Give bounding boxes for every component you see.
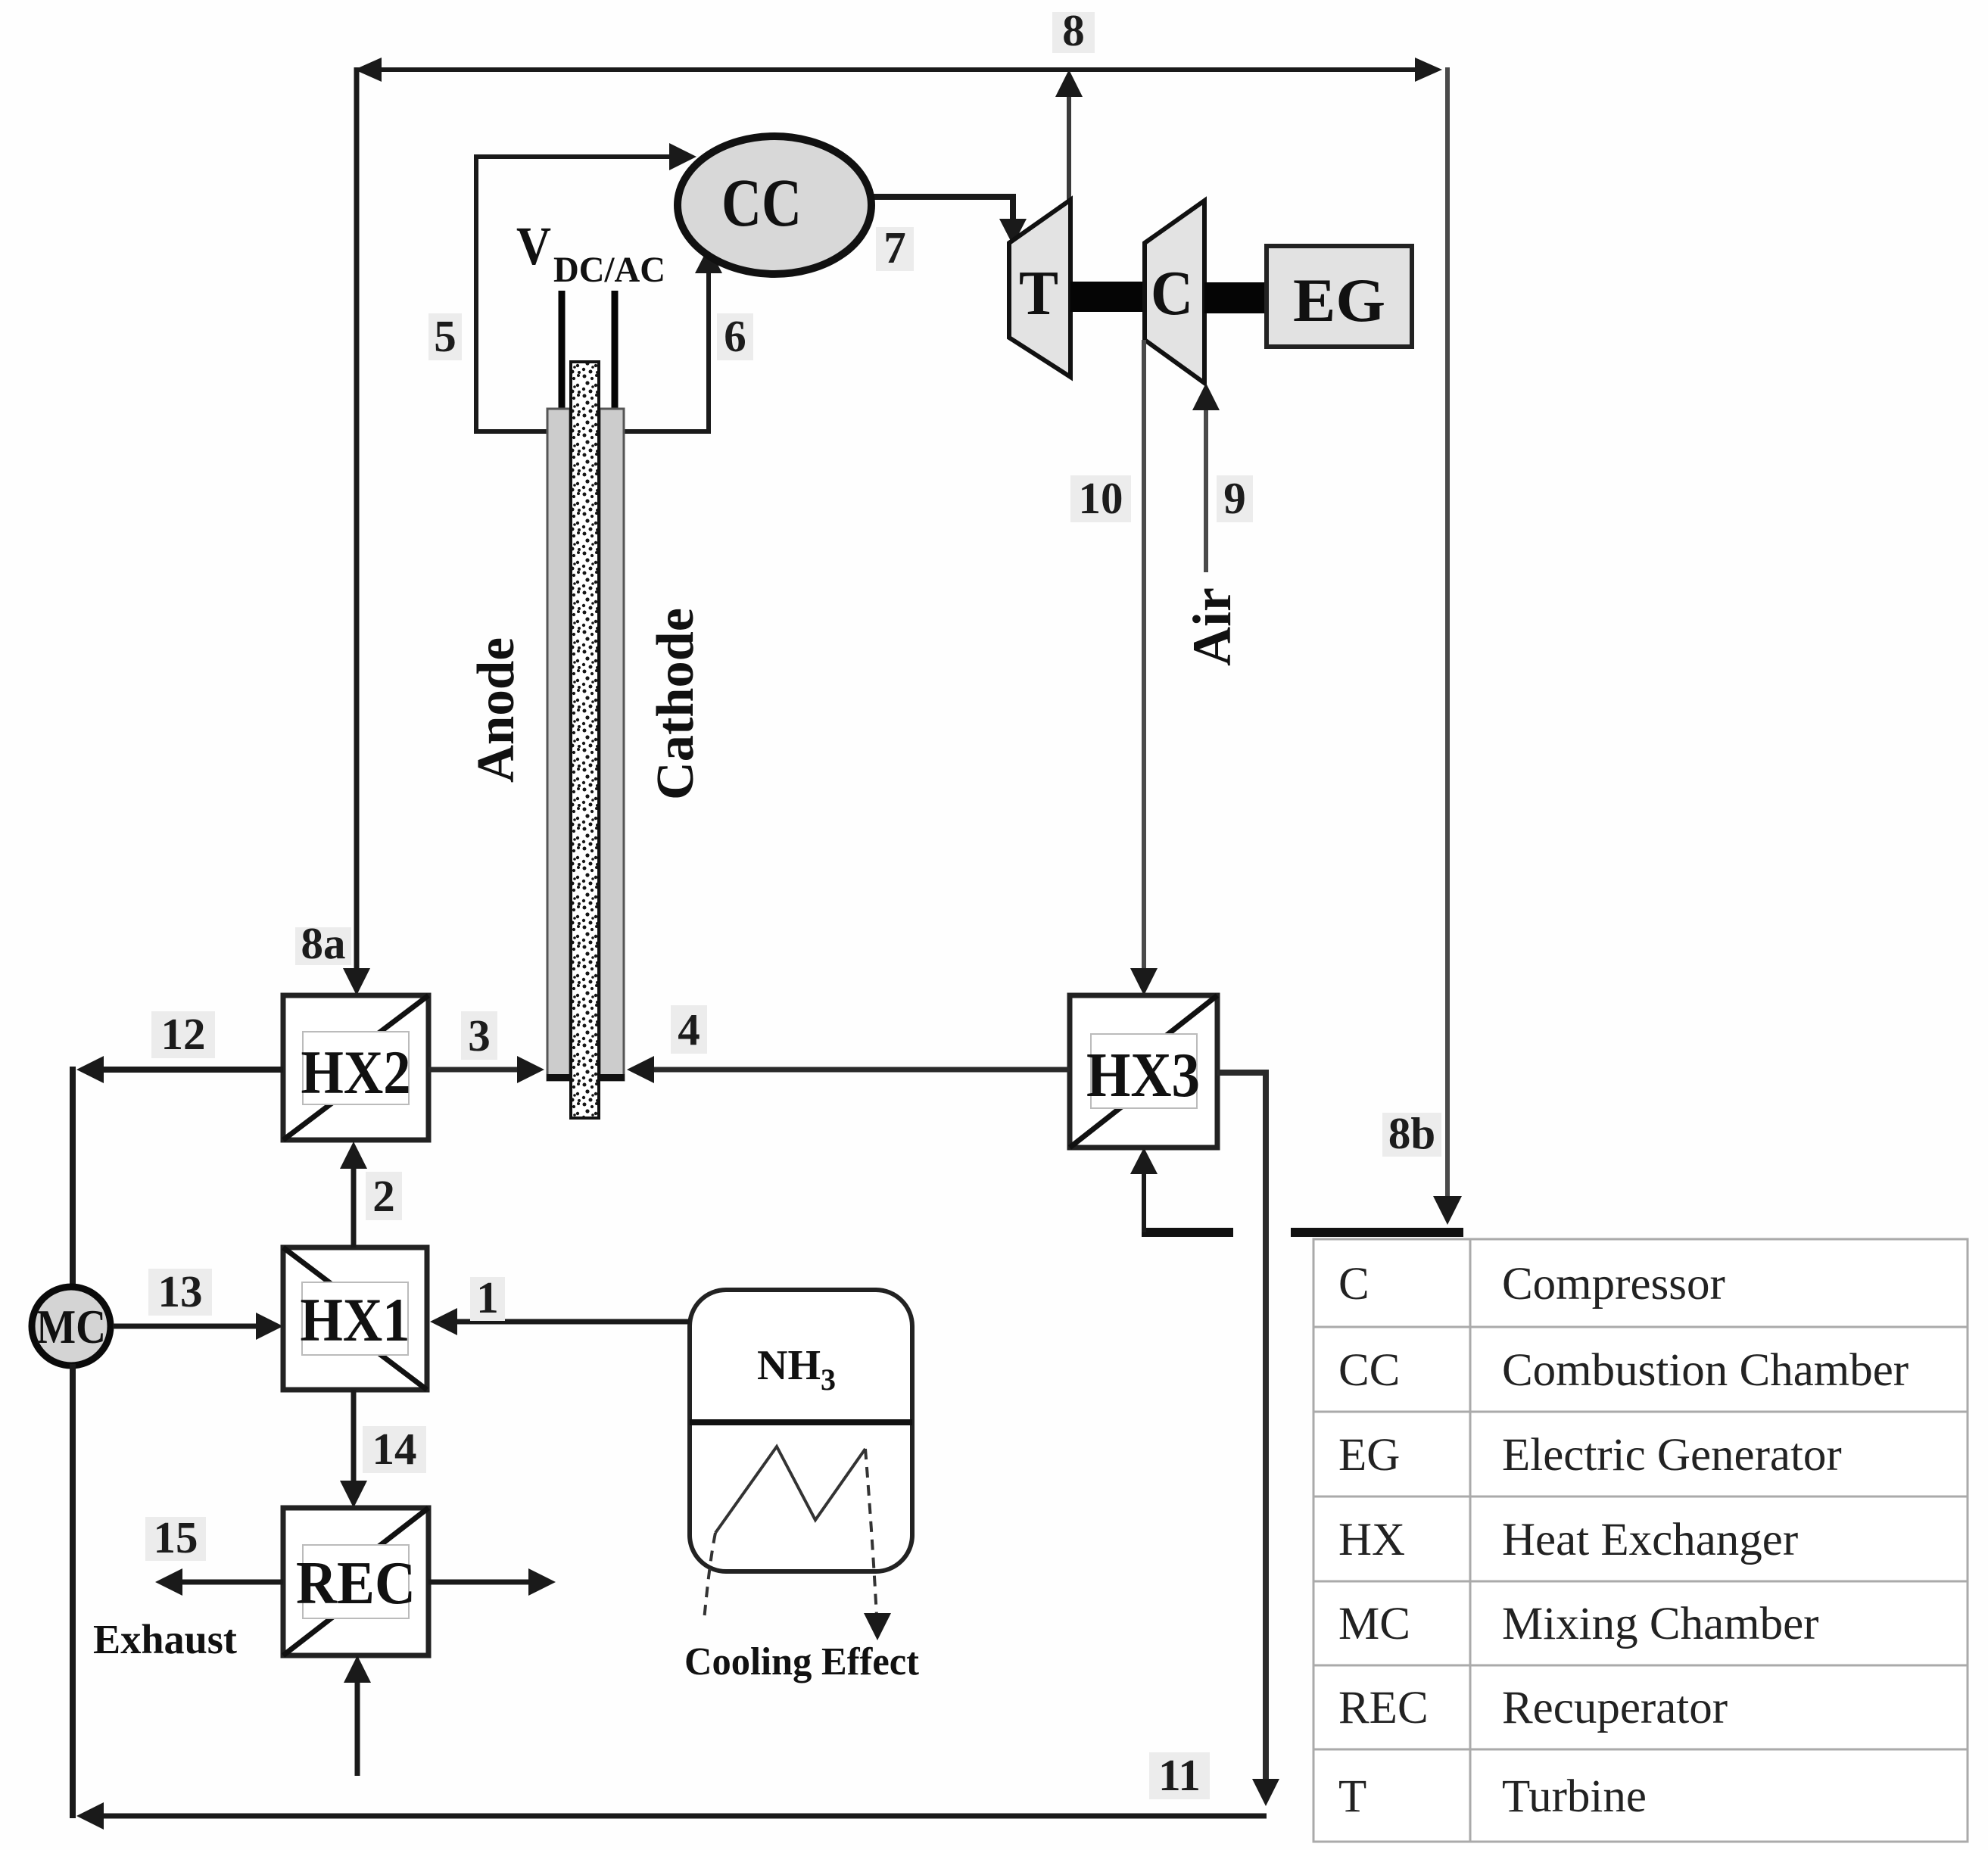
legend row MC [1338,1599,1818,1649]
legend row T [1338,1771,1647,1822]
svg-text:4: 4 [678,1004,700,1054]
svg-text:REC: REC [296,1550,416,1617]
wire 8b horizontal right segment [1291,1228,1463,1237]
ammonia tank NH3 [690,1290,912,1571]
wire 8b horizontal left segment [1142,1228,1233,1237]
label 14 [363,1424,426,1474]
svg-text:DC/AC: DC/AC [553,250,665,290]
wire stream 8a left vertical [343,67,370,995]
legend table [1313,1239,1968,1842]
wire stream 11 (HX3 to MC loop) [76,1073,1279,1830]
svg-text:Recuperator: Recuperator [1502,1683,1728,1733]
svg-text:1: 1 [476,1272,499,1322]
wire stream 6 (up into CC) [695,247,722,434]
legend row CC [1338,1345,1909,1396]
svg-text:Compressor: Compressor [1502,1259,1725,1310]
shaft turbine-compressor [1070,282,1145,312]
wire turbine exhaust up to stream 8 [1055,70,1083,200]
svg-text:Cooling Effect: Cooling Effect [684,1640,920,1683]
wire stream 9 air inlet [1192,383,1220,572]
label 8b [1382,1108,1441,1158]
svg-text:T: T [1019,258,1058,329]
svg-text:Electric Generator: Electric Generator [1502,1430,1842,1481]
wire stream 13 (MC to HX1) [113,1313,283,1340]
svg-text:Anode: Anode [467,637,525,783]
label 8a [295,918,351,968]
svg-text:8: 8 [1062,5,1085,55]
heat exchanger HX2 [283,995,428,1140]
wire stream 8 top [354,58,1442,82]
svg-text:HX1: HX1 [301,1285,410,1354]
label 4 [671,1004,707,1054]
turbine T [1009,200,1070,377]
shaft compressor-generator [1204,282,1267,313]
wire MC down leg [70,1364,76,1818]
svg-text:C: C [1338,1259,1369,1310]
svg-text:13: 13 [158,1266,203,1316]
svg-text:6: 6 [724,311,746,361]
fuel cell cathode bar [599,409,625,1081]
svg-text:T: T [1338,1771,1366,1822]
label 12 [151,1009,215,1059]
wire REC right outlet [428,1568,556,1596]
svg-text:11: 11 [1158,1750,1201,1800]
label 10 [1070,473,1131,523]
svg-text:8a: 8a [301,918,346,968]
wire stream 2 (HX1 to HX2) [340,1141,367,1247]
wire stream 12 (HX2 to MC) [76,1056,283,1083]
label 5 [428,311,462,361]
label 15 [145,1512,206,1562]
legend row C [1338,1259,1725,1310]
svg-text:7: 7 [883,223,906,273]
svg-text:5: 5 [434,311,456,361]
wire riser into HX3 bottom [1130,1148,1158,1232]
svg-text:Turbine: Turbine [1502,1771,1647,1822]
svg-text:15: 15 [154,1512,198,1562]
svg-text:HX3: HX3 [1086,1040,1200,1110]
label 11 [1149,1750,1210,1800]
label 9 [1217,473,1253,523]
svg-text:Heat Exchanger: Heat Exchanger [1502,1515,1798,1565]
wire stream 8b right vertical [1433,67,1462,1225]
wire stream 1 (NH3 to HX1) [430,1308,690,1335]
label 13 [148,1266,212,1316]
svg-text:2: 2 [372,1171,395,1221]
wire stream 7 (CC to turbine) [869,197,1027,245]
label 3 [461,1011,497,1060]
wire stream 15 (REC exhaust) [155,1568,283,1596]
combustion chamber CC [678,136,871,274]
svg-text:C: C [1151,258,1193,329]
electric generator EG [1267,246,1412,347]
compressor C [1145,201,1204,383]
label 2 [366,1171,402,1221]
recuperator REC [283,1508,428,1655]
svg-text:MC: MC [1338,1599,1410,1649]
legend row REC [1338,1683,1728,1733]
svg-text:REC: REC [1338,1683,1429,1733]
svg-text:Combustion Chamber: Combustion Chamber [1502,1345,1909,1396]
wire anode lead [559,291,566,424]
wire stream 5 loop (left+top into CC) [476,143,696,431]
mixing chamber MC [32,1287,111,1366]
svg-text:EG: EG [1293,266,1385,335]
svg-text:9: 9 [1223,473,1246,523]
wire stream 10 (compressor to HX3) [1130,340,1158,995]
evaporator coil zigzag [704,1447,891,1640]
svg-text:Air: Air [1182,587,1242,666]
wire stream 4 (HX3 to cathode) [627,1056,1070,1083]
label 1 [470,1272,505,1322]
svg-text:3: 3 [468,1011,491,1060]
wire REC bottom feed [344,1655,371,1776]
wire stream 14 (HX1 to REC) [340,1390,367,1508]
heat exchanger HX3 [1070,995,1217,1148]
svg-text:MC: MC [36,1300,106,1353]
heat exchanger HX1 [283,1247,427,1390]
wire MC riser [70,1067,76,1288]
svg-text:CC: CC [721,166,802,241]
svg-text:V: V [516,216,551,276]
svg-text:Cathode: Cathode [647,608,705,800]
svg-text:HX2: HX2 [301,1038,411,1107]
svg-text:12: 12 [161,1009,206,1059]
svg-text:14: 14 [372,1424,417,1474]
label 7 [876,223,914,273]
fuel cell electrolyte bar [571,362,599,1118]
label 8 [1052,5,1095,55]
svg-text:EG: EG [1338,1430,1400,1481]
legend row EG [1338,1430,1842,1481]
legend row HX [1338,1515,1798,1565]
wire cathode lead [612,291,619,424]
label 6 [717,311,753,361]
svg-text:10: 10 [1079,473,1123,523]
wire loop bottom segment [474,429,709,434]
svg-text:Mixing Chamber: Mixing Chamber [1502,1599,1818,1649]
wire stream 3 (HX2 to anode) [428,1056,544,1083]
svg-text:HX: HX [1338,1515,1405,1565]
svg-text:8b: 8b [1388,1108,1435,1158]
fuel cell anode bar [547,409,571,1081]
svg-text:CC: CC [1338,1345,1400,1396]
svg-text:Exhaust: Exhaust [93,1616,238,1662]
